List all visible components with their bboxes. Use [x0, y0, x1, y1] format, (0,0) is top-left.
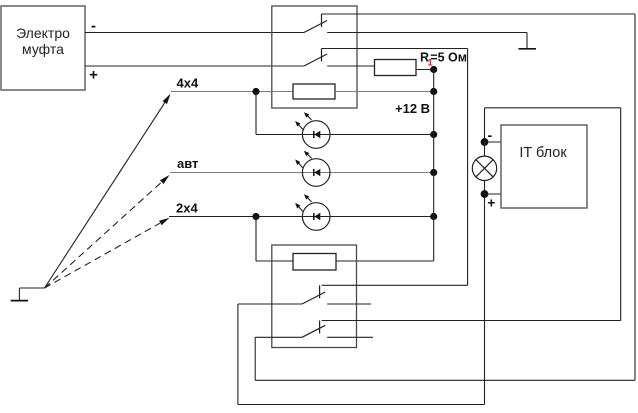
svg-text:+: +: [487, 194, 495, 210]
wire: 2х4 / LED3 line: [169, 216, 434, 218]
selector arrow to 2х4 (dashed): [45, 218, 170, 288]
switch S1: [304, 14, 327, 33]
wire: S1 lower throw to ground: [327, 33, 527, 49]
wire: R3 to +12V bus bottom: [336, 260, 434, 262]
wire 4х4: label to resistor R2: [171, 91, 293, 93]
node: bus top junction: [430, 66, 437, 73]
wire: S2 lower throw to resistor R1: [327, 65, 374, 67]
wire: LED1 line: [256, 134, 434, 136]
LED HL2: [295, 151, 330, 187]
switch S2: [304, 49, 327, 67]
svg-text:+: +: [89, 67, 98, 84]
selector arrow to авт (dashed): [45, 175, 170, 288]
svg-text:-: -: [487, 127, 492, 143]
wire: S1 upper throw to outer loop (right edge): [322, 13, 636, 15]
wire: 4х4 junction down to LED1 line: [255, 92, 257, 135]
wire minus: clutch to switch S1: [85, 32, 304, 34]
ground (top right): [519, 48, 537, 50]
node: bus LED2 junction: [430, 169, 437, 176]
wire: S3 input from lamp plus loop: [238, 194, 485, 405]
selector arrow to 4х4 (solid): [45, 94, 171, 288]
lower switch block box: [272, 245, 357, 348]
wire plus: clutch to switch S2: [85, 65, 304, 67]
svg-text:Электро: Электро: [16, 25, 70, 41]
resistor R1: [375, 60, 417, 76]
node: bus LED3 junction: [430, 213, 437, 220]
wire: lamp plus to IT block: [485, 193, 502, 195]
wire: S4 lower throw stub: [327, 336, 373, 338]
svg-text:+12 В: +12 В: [395, 101, 430, 116]
svg-text:IT блок: IT блок: [519, 145, 567, 161]
LED HL3: [295, 194, 330, 230]
wire: node A vertical down to S3 upper throw: [467, 49, 469, 286]
wire: lamp minus to IT block: [485, 141, 502, 143]
wire: S2 upper throw to node A: [322, 48, 468, 50]
node: lamp plus junction: [481, 190, 489, 198]
node: 2х4 junction: [252, 213, 259, 220]
wire: авт / LED2 line: [170, 172, 434, 174]
node: 4х4 junction: [252, 88, 259, 95]
label R1=5 Ом: [420, 50, 467, 67]
svg-text:=5 Ом: =5 Ом: [430, 50, 467, 64]
wire: outer loop bottom: [255, 379, 635, 381]
ground (bottom left, selector common): [11, 288, 45, 301]
svg-text:авт: авт: [177, 156, 198, 171]
wire: +12V bus vertical: [433, 70, 435, 262]
wire: S3 lower throw stub: [327, 303, 371, 305]
node: lamp minus junction: [481, 138, 489, 146]
svg-text:4х4: 4х4: [177, 76, 199, 91]
relay box (upper switch block): [272, 6, 357, 108]
lamp HL4 (indicator): [472, 156, 496, 180]
resistor R3 (in lower box): [293, 254, 336, 271]
block: IT блок: [501, 125, 587, 208]
switch S4: [302, 321, 325, 338]
wire: outer loop right edge: [634, 14, 636, 380]
svg-text:2х4: 2х4: [176, 201, 198, 216]
wire: S4 upper throw to lamp minus loop: [322, 108, 621, 321]
svg-text:муфта: муфта: [22, 41, 64, 57]
node: bus LED1 junction: [430, 131, 437, 138]
wire: S3 upper throw to node A: [322, 284, 468, 286]
resistor R2 (in relay box): [293, 84, 335, 99]
node: bus 4х4 junction: [430, 88, 437, 95]
LED HL1: [295, 112, 330, 148]
wire: R2 to +12V bus: [335, 91, 434, 93]
wire: lamp bottom to plus junction: [484, 181, 486, 195]
wire: 2х4 junction down to R3: [256, 217, 293, 262]
wire: R1 to +12V bus: [416, 69, 434, 71]
block: Электро муфта (electric clutch): [1, 6, 85, 90]
wire: riser to S4 input: [254, 337, 256, 380]
wire: junction to lamp top: [484, 142, 486, 156]
switch S3: [302, 285, 325, 304]
wire: S4 input: [255, 336, 302, 338]
